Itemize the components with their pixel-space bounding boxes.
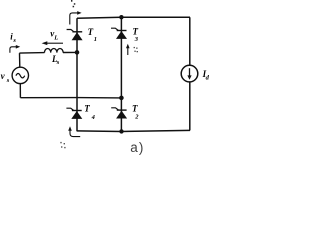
- thyristor T4: [66, 108, 82, 119]
- svg-text:d: d: [206, 74, 209, 81]
- label id clipped at top edge: [71, 0, 72, 2]
- svg-text:4: 4: [91, 114, 96, 121]
- wire bottom rail: [77, 130, 190, 131]
- wire from inductor to left leg: [19, 52, 44, 55]
- current source Id circle: [181, 65, 198, 82]
- svg-text:a): a): [130, 140, 144, 155]
- wire right leg: [120, 17, 122, 131]
- svg-text:s: s: [6, 77, 10, 84]
- voltage arrow (up) near T3 leg: [127, 47, 129, 55]
- svg-text:s: s: [12, 37, 16, 44]
- label v (tiny, right of up arrow): [134, 47, 138, 52]
- node: top rail / right leg junction: [119, 15, 123, 19]
- current source arrow: [187, 68, 191, 80]
- svg-text:1: 1: [94, 36, 97, 43]
- svg-text:v: v: [1, 71, 6, 81]
- voltage arrow vL (points left): [47, 42, 63, 44]
- wire left leg: [76, 18, 78, 131]
- svg-text:L: L: [53, 35, 58, 42]
- thyristor T2: [111, 108, 127, 119]
- svg-text:T: T: [84, 104, 90, 114]
- current arrow is (hook at source): [10, 47, 17, 53]
- svg-text:T: T: [132, 103, 138, 113]
- node: bottom rail / right leg junction: [119, 129, 123, 133]
- svg-text:T: T: [88, 27, 94, 37]
- wire source bottom vertical: [19, 84, 21, 98]
- inductor Ls coil: [45, 48, 64, 52]
- wire bottom ac return to right leg: [20, 97, 121, 99]
- node: inductor to left leg junction: [75, 50, 80, 55]
- label i (faint, bottom left): [60, 142, 65, 148]
- thyristor T3: [111, 28, 127, 39]
- current arrow hook bottom left: [70, 129, 80, 136]
- wire right source branch lower: [189, 82, 191, 131]
- node: ac return / right leg junction: [119, 96, 124, 101]
- ac source sine symbol: [16, 74, 25, 78]
- thyristor T1: [67, 30, 83, 41]
- svg-text:2: 2: [134, 114, 139, 121]
- svg-text:3: 3: [134, 36, 139, 43]
- wire right source branch upper: [189, 17, 191, 65]
- svg-text:s: s: [56, 59, 60, 66]
- ac source vs circle: [12, 67, 28, 83]
- wire top rail: [77, 17, 190, 18]
- wire source top vertical: [19, 53, 21, 67]
- current arrow id at top rail (hook): [70, 13, 78, 25]
